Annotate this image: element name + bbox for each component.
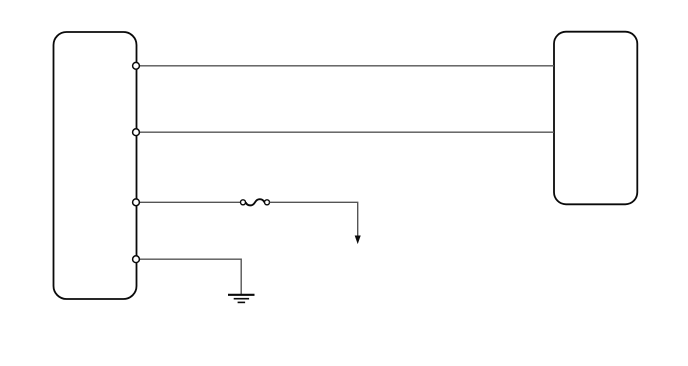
ground symbol bar 1 [228, 294, 255, 296]
connector block J1 (left) [54, 32, 137, 299]
wire pin3 to fuse [140, 201, 241, 203]
pin 1 terminal circle [133, 62, 140, 69]
ground symbol bar 2 [234, 298, 249, 300]
wire pin1 to right block [140, 65, 554, 67]
pin 2 terminal circle [133, 129, 140, 136]
fuse F1 right terminal [265, 200, 270, 205]
wire fuse to arrow corner [270, 202, 358, 236]
ground symbol bar 3 [238, 301, 246, 303]
wire pin2 to right block [140, 131, 554, 133]
pin 4 terminal circle [133, 256, 140, 263]
connector block J2 (right) [554, 32, 637, 205]
fuse F1 wave [246, 199, 265, 205]
arrowhead (off-page pointer) [355, 236, 360, 243]
wire pin4 to ground [140, 259, 242, 294]
fuse F1 left terminal [241, 200, 246, 205]
pin 3 terminal circle [133, 199, 140, 206]
